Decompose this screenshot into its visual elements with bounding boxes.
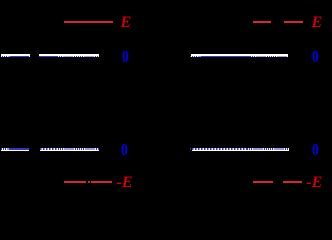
wire: white band at level 0, upper-left, segment B <box>39 54 99 57</box>
wire: blue dotted part, upper-right 0 end <box>250 56 288 58</box>
node 0 label, lower-left <box>121 145 128 155</box>
wire: blue dotted part, upper-left 0 segment A <box>2 56 11 58</box>
wire: blue tick before upper-right band <box>190 56 191 58</box>
wire: blue dotted part, lower-left 0 segment B <box>58 148 100 150</box>
wire: white band at level 0, upper-right <box>191 54 289 57</box>
wire: white band at level 0, lower-left, segment A <box>1 148 30 151</box>
wire: dashed red line at level E, top-right subplot (dash 2) <box>284 21 303 23</box>
wire: blue dotted part, lower-left 0 segment A <box>1 148 9 150</box>
wire: blue dotted part, upper-left 0 segment B <box>57 56 100 58</box>
wire: blue dotted part, lower-right 0 end <box>247 148 289 150</box>
wire: white band at level 0, upper-left, segment A <box>1 54 30 57</box>
wire: blue solid part, upper-right 0 <box>201 56 251 58</box>
wire: dashed red line at level E, top-right subplot (dash 1) <box>253 21 271 23</box>
wire: dashed red line at level -E, bottom-right (dash 2) <box>283 181 302 183</box>
wire: blue dotted part, upper-right 0 start <box>192 56 201 58</box>
wire: blue solid part, upper-left 0 segment A <box>10 56 29 58</box>
node -E label, bottom-left <box>117 178 133 188</box>
node 0 label, lower-right <box>312 145 319 155</box>
wire: solid red line at level E, top-left subplot <box>64 21 114 23</box>
wire: blue solid part, upper-left 0 segment B <box>39 56 57 58</box>
wire: dash-dot red line at level -E, bottom-left (dash 2) <box>91 181 112 183</box>
node 0 label, upper-left <box>122 52 129 62</box>
wire: blue dense-dash part, lower-left 0 segment B <box>40 148 58 150</box>
wire: dashed red line at level -E, bottom-right (dash 1) <box>253 181 273 183</box>
node E label, top-right <box>312 18 323 28</box>
node -E label, bottom-right <box>306 178 322 188</box>
wire: white band at level 0, lower-right <box>192 148 289 151</box>
node 0 label, upper-right <box>312 52 319 62</box>
node E label, top-left <box>121 18 132 28</box>
wire: dash-dot red line at level -E, bottom-left (dash 1) <box>64 181 86 183</box>
wire: blue solid part, lower-left 0 segment A <box>9 148 30 150</box>
wire: dash-dot red line at level -E, bottom-left (dot) <box>88 181 90 183</box>
wire: white band at level 0, lower-left, segment B <box>40 148 99 151</box>
wire: blue tick before lower-right band <box>190 148 191 150</box>
wire: blue dense-dash part, lower-right 0 <box>192 148 247 150</box>
